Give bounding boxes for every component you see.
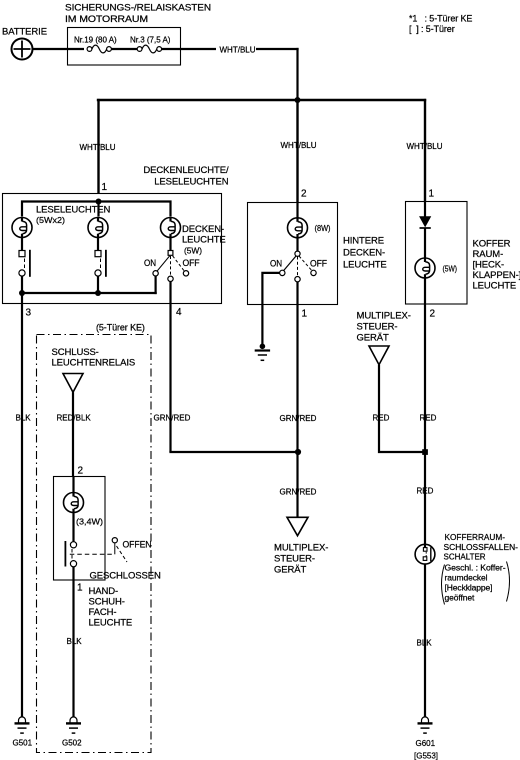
svg-text:IM MOTORRAUM: IM MOTORRAUM: [65, 14, 148, 25]
svg-text:RED: RED: [373, 414, 390, 423]
wire fuse box to WHT/BLU label: [162, 48, 216, 50]
ground G502: [62, 717, 82, 748]
svg-text:LEUCHTE: LEUCHTE: [182, 235, 226, 246]
connector triangle relay: [63, 374, 83, 393]
switch door-type S1: [19, 250, 30, 277]
svg-text:(5W): (5W): [184, 247, 202, 256]
wire battery to fuse box: [33, 48, 85, 50]
svg-text:FACH-: FACH-: [89, 607, 117, 618]
wire into lamp4: [72, 477, 74, 493]
svg-text:SCHLUSS-: SCHLUSS-: [52, 347, 99, 358]
lever offen position: [112, 538, 127, 562]
ground G601: [414, 717, 438, 760]
svg-text:BLK: BLK: [67, 637, 83, 646]
svg-text:SCHUH-: SCHUH-: [89, 597, 125, 608]
switch rear dome selector: [280, 251, 317, 282]
switch door-type S2: [95, 250, 106, 277]
connector triangle multiplex bottom: [287, 517, 308, 535]
wire into lamp5: [296, 203, 298, 218]
label Deckenleuchte 5W: [182, 224, 226, 256]
svg-text:WHT/BLU: WHT/BLU: [80, 143, 116, 152]
box rear dome light: [248, 203, 338, 305]
svg-text:1: 1: [302, 309, 308, 320]
wire left drop WHT/BLU: [97, 99, 99, 194]
svg-text:LESELEUCHTEN: LESELEUCHTEN: [154, 177, 229, 188]
lamp rear dome 8W: [288, 218, 308, 238]
svg-text:Nr.3 (7,5 A): Nr.3 (7,5 A): [130, 36, 171, 45]
svg-text:MULTIPLEX-: MULTIPLEX-: [357, 311, 411, 322]
svg-text:ON: ON: [144, 258, 156, 269]
wire main bus horizontal: [97, 99, 426, 101]
svg-text:(3,4W): (3,4W): [76, 518, 103, 527]
svg-text:RAUM-: RAUM-: [473, 249, 504, 260]
svg-text:G601: G601: [416, 739, 436, 748]
svg-text:[G553]: [G553]: [414, 752, 438, 760]
svg-text:ON: ON: [270, 259, 282, 270]
svg-text:RED: RED: [417, 487, 434, 496]
svg-text:KOFFER: KOFFER: [473, 239, 511, 250]
wire lamp4 to switch: [72, 513, 74, 543]
svg-text:DECKEN-: DECKEN-: [343, 248, 385, 259]
svg-text:LESELEUCHTEN: LESELEUCHTEN: [36, 205, 111, 216]
svg-text:GRN/RED: GRN/RED: [154, 414, 191, 423]
box trunk light: [406, 202, 468, 305]
svg-text:Nr.19 (80 A): Nr.19 (80 A): [74, 36, 117, 45]
wire switch1 to bottom bus: [21, 276, 23, 293]
wire lamp1 to switch1: [21, 238, 23, 251]
svg-text:geöffnet: geöffnet: [445, 593, 476, 603]
label Multiplex-Steuergeraet bottom: [274, 543, 328, 576]
ground under rear dome: [255, 344, 270, 361]
svg-text:KOFFERRAUM-: KOFFERRAUM-: [445, 533, 506, 542]
label Schlussleuchtenrelais: [52, 347, 136, 369]
wire middle drop WHT/BLU: [296, 100, 298, 203]
lamp reading light 2: [88, 218, 108, 238]
wire WHT/BLU to corner: [256, 48, 299, 50]
lamp reading light 1: [12, 218, 32, 238]
node RED junction square: [422, 449, 428, 455]
svg-text:MULTIPLEX-: MULTIPLEX-: [274, 543, 328, 554]
box dashed 5-Tuerer KE: [37, 335, 152, 753]
svg-text:(8W): (8W): [315, 224, 331, 233]
label Handschuhfachleuchte: [89, 586, 133, 629]
svg-text:BATTERIE: BATTERIE: [2, 27, 47, 38]
label Kofferraum-Schlossfallen-Schalter: [444, 533, 519, 562]
svg-text:1: 1: [102, 182, 108, 193]
svg-text:OFF: OFF: [310, 259, 327, 270]
wire switch out to pin1: [72, 567, 74, 718]
wire ON contact to ground leg: [262, 273, 279, 344]
svg-text:raumdeckel: raumdeckel: [445, 573, 488, 583]
svg-text:RED/BLK: RED/BLK: [57, 414, 92, 423]
svg-text:[ ] : 5-Türer: [ ] : 5-Türer: [409, 24, 455, 34]
wire between fuses: [111, 48, 137, 50]
wire junction to multiplex triangle: [296, 452, 298, 518]
svg-text:HAND-: HAND-: [89, 586, 119, 597]
svg-text:LEUCHTE: LEUCHTE: [473, 281, 517, 292]
lamp dome light: [161, 218, 181, 238]
label Deckenleuchte/Leseleuchten: [143, 165, 229, 188]
svg-text:GRN/RED: GRN/RED: [280, 414, 317, 423]
svg-text:STEUER-: STEUER-: [274, 554, 315, 565]
switch dome selector: [153, 251, 189, 282]
ground G501: [13, 717, 33, 748]
svg-text:GERÄT: GERÄT: [274, 565, 307, 576]
node bottom bus left: [19, 290, 25, 296]
label Hintere Deckenleuchte: [343, 236, 387, 271]
svg-text:SCHLOSSFALLEN-: SCHLOSSFALLEN-: [444, 543, 519, 552]
svg-text:OFF: OFF: [183, 258, 200, 269]
note geschlossen geoeffnet: [442, 562, 510, 605]
svg-text:G501: G501: [13, 739, 33, 748]
svg-text:2: 2: [301, 189, 307, 200]
fuse Nr.19 80A: [74, 36, 117, 53]
label fuse/relay box title: [65, 3, 211, 26]
diode D1: [420, 217, 431, 228]
svg-text:KLAPPEN-]: KLAPPEN-]: [473, 270, 520, 281]
switch glove box: [65, 541, 76, 567]
label Kofferraumleuchte: [473, 239, 520, 292]
svg-text:DECKENLEUCHTE/: DECKENLEUCHTE/: [143, 165, 229, 176]
svg-text:SCHALTER: SCHALTER: [444, 553, 486, 562]
svg-text:Geschl. : Koffer-: Geschl. : Koffer-: [445, 563, 506, 573]
wire latch to ground BLK: [424, 564, 426, 718]
svg-text:G502: G502: [62, 739, 82, 748]
svg-text:2: 2: [430, 309, 436, 320]
svg-text:DECKEN-: DECKEN-: [182, 224, 224, 235]
wire lamp5 to pivot: [296, 238, 298, 251]
legend 5-Tuerer: [409, 14, 472, 35]
wire diode to lamp6: [424, 228, 426, 258]
wire corner down to bus: [296, 48, 298, 100]
wire lamp6 down through junction: [424, 278, 426, 548]
node top bus junction: [96, 199, 102, 205]
svg-text:OFFEN: OFFEN: [123, 540, 152, 551]
svg-text:WHT/BLU: WHT/BLU: [407, 142, 443, 151]
svg-text:BLK: BLK: [16, 414, 32, 423]
node bus junction: [295, 97, 301, 103]
svg-text:[HECK-: [HECK-: [473, 260, 505, 271]
svg-text:WHT/BLU: WHT/BLU: [220, 46, 256, 55]
node bottom bus middle: [95, 290, 101, 296]
wire relay to glove box lamp RED/BLK: [72, 392, 74, 477]
box dome/reading lights: [3, 194, 222, 304]
node GRN/RED junction: [295, 449, 301, 455]
wire bottom bus: [22, 292, 157, 294]
switch trunk latch: [415, 544, 435, 564]
box glove box light: [54, 477, 106, 581]
svg-text:RED: RED: [420, 414, 437, 423]
svg-text:LEUCHTE: LEUCHTE: [89, 618, 133, 629]
svg-text:[Heckklappe]: [Heckklappe]: [445, 583, 493, 593]
battery B1: [2, 27, 47, 60]
wire dome mid contact down pin 4: [169, 282, 171, 453]
wire multiplex right to junction RED: [379, 365, 425, 452]
svg-text:LEUCHTENRELAIS: LEUCHTENRELAIS: [52, 358, 136, 369]
wire pin4 GRN/RED to junction: [169, 451, 297, 453]
wire pin3 BLK down: [21, 293, 23, 718]
wire switch2 to bottom bus: [97, 276, 99, 293]
label Multiplex-Steuergeraet right: [357, 311, 411, 344]
connector triangle multiplex right: [369, 346, 389, 365]
wire lamp3 to pivot: [169, 238, 171, 251]
svg-text:BLK: BLK: [417, 639, 433, 648]
svg-text:GESCHLOSSEN: GESCHLOSSEN: [90, 571, 161, 582]
fuse Nr.3 7.5A: [130, 36, 171, 53]
lamp trunk 5W: [415, 258, 435, 278]
wire rear dome pin1 down: [296, 282, 298, 452]
wire into diode: [424, 202, 426, 217]
svg-text:HINTERE: HINTERE: [343, 236, 384, 247]
link dashed to offen lever: [70, 553, 114, 555]
svg-text:LEUCHTE: LEUCHTE: [343, 260, 387, 271]
svg-text:*1 : 5-Türer KE: *1 : 5-Türer KE: [409, 14, 472, 24]
wire lamp2 to switch2: [97, 238, 99, 251]
svg-text:4: 4: [176, 307, 182, 318]
svg-text:3: 3: [26, 308, 32, 319]
svg-text:GERÄT: GERÄT: [357, 333, 390, 344]
fuse/relay box: [68, 28, 181, 66]
wire ON contact riser: [155, 276, 157, 294]
wire feed to lamp2: [97, 202, 99, 217]
svg-text:(5-Türer KE): (5-Türer KE): [96, 323, 145, 333]
svg-text:2: 2: [78, 466, 84, 477]
wire internal top bus: [22, 202, 171, 217]
svg-text:(5W): (5W): [443, 265, 458, 274]
svg-text:1: 1: [429, 189, 435, 200]
svg-text:1: 1: [77, 583, 83, 594]
svg-text:WHT/BLU: WHT/BLU: [281, 141, 317, 150]
svg-text:(5Wx2): (5Wx2): [36, 216, 65, 225]
svg-text:GRN/RED: GRN/RED: [280, 488, 317, 497]
svg-text:STEUER-: STEUER-: [357, 322, 398, 333]
wire right drop WHT/BLU: [424, 99, 426, 202]
label Leseleuchten: [36, 205, 111, 226]
lamp glove box 3.4W: [64, 493, 84, 513]
svg-text:SICHERUNGS-/RELAISKASTEN: SICHERUNGS-/RELAISKASTEN: [65, 3, 211, 14]
